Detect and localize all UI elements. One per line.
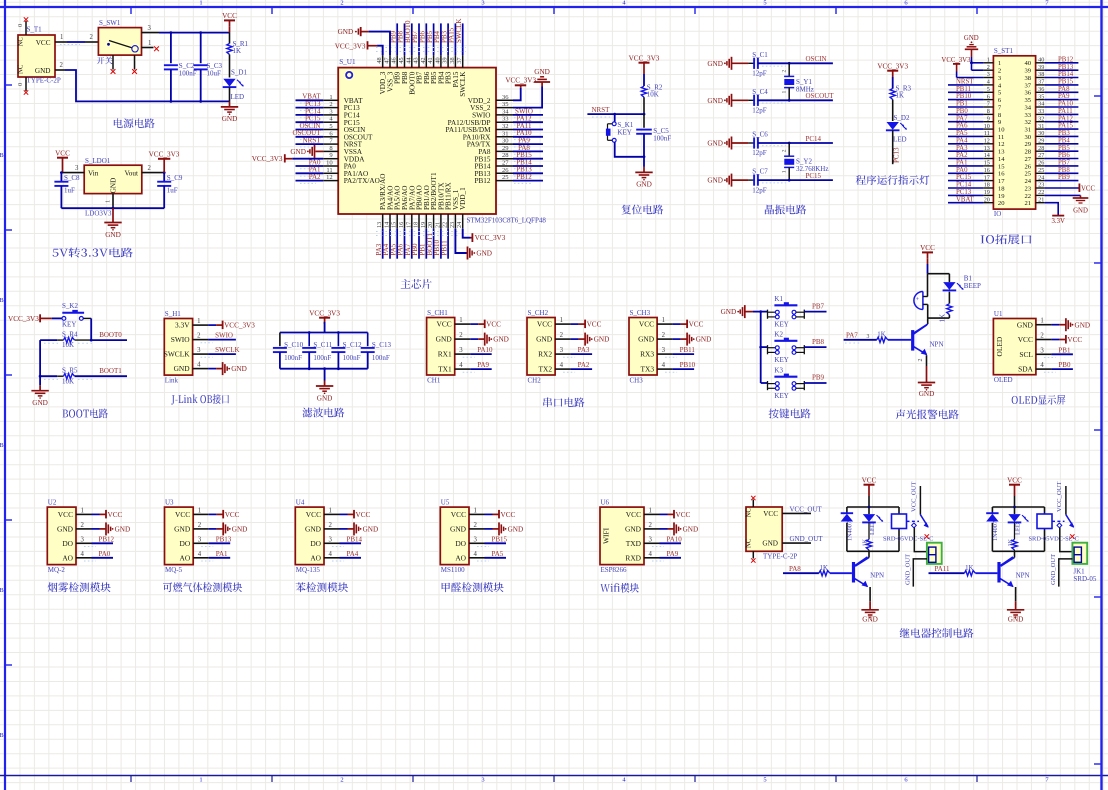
svg-text:GND: GND	[231, 365, 247, 373]
svg-text:GND: GND	[32, 399, 48, 407]
svg-text:5: 5	[987, 86, 990, 93]
svg-text:SWIO: SWIO	[171, 335, 191, 344]
svg-text:OLED: OLED	[995, 336, 1004, 356]
svg-text:PA3: PA3	[578, 346, 590, 354]
key K1 reset button	[606, 114, 644, 157]
svg-text:VCC_3V3: VCC_3V3	[149, 151, 180, 159]
svg-text:2: 2	[90, 34, 94, 41]
title main chip	[401, 279, 432, 289]
svg-text:29: 29	[502, 145, 509, 152]
power VCC_3V3 boot	[8, 314, 52, 323]
svg-text:VCC: VCC	[108, 511, 123, 519]
svg-text:31: 31	[1038, 123, 1044, 130]
svg-text:PB13: PB13	[216, 535, 232, 543]
svg-text:3: 3	[474, 536, 478, 543]
svg-text:PA4: PA4	[347, 550, 359, 558]
svg-text:14: 14	[998, 156, 1005, 163]
svg-text:15: 15	[998, 163, 1005, 170]
svg-text:22: 22	[1038, 189, 1044, 196]
svg-text:37: 37	[1038, 79, 1044, 86]
svg-text:Vout: Vout	[125, 170, 138, 178]
capacitor C3 10uF	[194, 33, 223, 102]
capacitor C6 12pF / net PC14	[707, 131, 833, 158]
svg-text:VCC: VCC	[55, 150, 70, 158]
svg-text:GND: GND	[919, 390, 935, 398]
module S_CH1 (CH1)	[427, 309, 509, 385]
svg-text:34: 34	[502, 108, 509, 115]
svg-text:21: 21	[434, 222, 441, 228]
svg-text:1: 1	[474, 507, 477, 514]
LED relay	[1008, 507, 1029, 535]
svg-text:35: 35	[1025, 97, 1032, 104]
svg-text:RX1: RX1	[438, 350, 452, 359]
svg-text:PA2: PA2	[578, 361, 590, 369]
svg-text:ESP8266: ESP8266	[601, 566, 628, 574]
svg-text:LDO3V3: LDO3V3	[85, 210, 112, 218]
svg-text:DO: DO	[310, 539, 321, 548]
svg-text:1uF: 1uF	[167, 186, 178, 194]
svg-text:4: 4	[662, 362, 666, 369]
svg-text:VCC_OUT: VCC_OUT	[790, 505, 823, 513]
svg-text:16: 16	[398, 222, 405, 228]
svg-text:22: 22	[442, 222, 449, 228]
svg-text:1: 1	[998, 60, 1001, 67]
svg-text:33: 33	[1038, 108, 1044, 115]
svg-text:PB12: PB12	[475, 177, 491, 185]
svg-text:1K: 1K	[820, 565, 828, 572]
title reset circuit	[621, 205, 663, 215]
svg-text:PA2: PA2	[309, 173, 321, 181]
ground GND at U1 pin23 VSS_1	[455, 229, 492, 260]
svg-text:MQ-135: MQ-135	[296, 566, 321, 574]
svg-text:21: 21	[1038, 196, 1044, 203]
svg-text:2: 2	[329, 522, 333, 529]
svg-text:VBAT: VBAT	[956, 196, 975, 203]
module U3 (MQ-5)	[165, 499, 248, 574]
svg-text:7: 7	[987, 101, 990, 108]
capacitor C11 100nF	[302, 333, 333, 369]
svg-text:32: 32	[1025, 119, 1032, 126]
svg-text:24: 24	[1038, 174, 1044, 181]
relay switch contact	[911, 482, 930, 539]
svg-text:GND: GND	[707, 60, 723, 68]
svg-text:4: 4	[474, 551, 478, 558]
wire key rail	[759, 310, 762, 383]
svg-text:16: 16	[998, 171, 1005, 178]
power VCC_3V3 reset	[629, 55, 660, 87]
power VCC alarm	[920, 244, 935, 274]
filter bottom rail	[280, 367, 368, 370]
wire LDO bottom rail	[61, 207, 164, 209]
svg-text:NC: NC	[746, 538, 753, 548]
crystal Y2 32.768KHz	[782, 143, 829, 180]
svg-text:GND_OUT: GND_OUT	[1050, 554, 1057, 585]
svg-text:30: 30	[502, 138, 509, 145]
svg-text:VCC: VCC	[1081, 185, 1095, 192]
svg-text:25: 25	[1025, 171, 1032, 178]
title crystal circuit	[765, 205, 806, 215]
svg-text:S_C7: S_C7	[752, 168, 768, 176]
power VCC_3V3 at U1 pin9 VDDA	[252, 154, 323, 163]
svg-text:S_U1: S_U1	[339, 58, 356, 66]
svg-text:29: 29	[1025, 141, 1032, 148]
svg-text:39: 39	[442, 57, 449, 63]
svg-text:SWCLK: SWCLK	[455, 19, 463, 44]
svg-text:35: 35	[1038, 93, 1044, 100]
svg-text:3: 3	[75, 165, 79, 172]
svg-text:SRD-05VDC-SL-C: SRD-05VDC-SL-C	[1029, 536, 1079, 543]
svg-text:19: 19	[420, 222, 427, 228]
svg-text:2: 2	[60, 62, 64, 69]
svg-text:VCC: VCC	[436, 320, 451, 329]
svg-text:GND: GND	[363, 526, 379, 534]
connector T2 TYPE-C-2P output	[746, 496, 798, 563]
svg-text:K2: K2	[774, 331, 783, 339]
svg-text:39: 39	[1025, 68, 1032, 75]
capacitor C8 1uF	[54, 173, 80, 209]
svg-text:KEY: KEY	[62, 321, 76, 329]
svg-text:GND: GND	[290, 148, 306, 156]
svg-text:S_T1: S_T1	[27, 26, 43, 34]
svg-text:1: 1	[148, 40, 151, 47]
svg-text:SCL: SCL	[1019, 350, 1033, 359]
svg-text:4: 4	[1040, 362, 1044, 369]
svg-text:1: 1	[782, 91, 788, 94]
svg-text:SWIO: SWIO	[215, 332, 233, 340]
svg-text:CH2: CH2	[528, 377, 542, 385]
svg-text:S_K2: S_K2	[62, 302, 78, 310]
svg-text:17: 17	[998, 178, 1005, 185]
svg-text:3: 3	[987, 71, 990, 78]
wire T1 VCC to SW1	[55, 34, 98, 45]
ground GND filter	[316, 369, 333, 403]
svg-text:4: 4	[560, 362, 564, 369]
net VCC_OUT from T2	[782, 505, 822, 513]
svg-text:25: 25	[502, 174, 509, 181]
power VCC_3V3 ST1 pin3	[941, 57, 983, 78]
regulator LDO1 LDO3V3	[61, 157, 164, 218]
title smoke detect module	[48, 582, 111, 592]
svg-text:27: 27	[1038, 152, 1044, 159]
module S_CH2 (CH2)	[527, 309, 609, 385]
capacitor C10 100nF	[273, 333, 304, 369]
svg-text:14: 14	[384, 222, 391, 228]
svg-text:18: 18	[984, 182, 990, 189]
power VCC ST1 pin23	[1045, 184, 1096, 193]
capacitor C1 12pF / net OSCIN	[707, 51, 833, 78]
svg-text:11: 11	[984, 130, 990, 137]
net GND_OUT from T2	[782, 535, 823, 543]
U1 top net wires and labels	[389, 19, 463, 56]
svg-text:PA3: PA3	[956, 145, 968, 152]
svg-text:NPN: NPN	[930, 340, 944, 348]
svg-text:VCC_3V3: VCC_3V3	[877, 63, 908, 71]
key K2 / net PB8	[761, 331, 827, 365]
crystal Y1 8MHz	[782, 63, 814, 100]
svg-text:VCC_3V3: VCC_3V3	[475, 234, 506, 242]
svg-text:100nF: 100nF	[284, 354, 302, 362]
wire SW1 to VCC rail	[159, 32, 230, 34]
wire T1 GND to bottom rail	[55, 62, 230, 101]
svg-text:PB1: PB1	[956, 101, 968, 108]
svg-text:13: 13	[984, 145, 990, 152]
svg-text:2: 2	[782, 70, 788, 73]
ground GND reset	[635, 157, 652, 189]
switch SW1	[97, 19, 159, 74]
title wifi module	[600, 583, 639, 593]
resistor 1K alarm	[928, 304, 952, 323]
svg-text:19: 19	[984, 189, 990, 196]
svg-text:GND: GND	[115, 526, 131, 534]
svg-text:S_H1: S_H1	[165, 310, 181, 318]
ground GND relay PA11	[1007, 601, 1024, 623]
svg-text:NC: NC	[18, 37, 25, 47]
svg-text:PA1: PA1	[216, 550, 228, 558]
svg-text:36: 36	[502, 94, 509, 101]
svg-text:U4: U4	[296, 499, 305, 507]
svg-text:GND: GND	[707, 177, 723, 185]
svg-text:1: 1	[105, 200, 112, 203]
svg-text:30: 30	[1038, 130, 1044, 137]
svg-text:GND: GND	[1008, 616, 1024, 624]
svg-text:VCC: VCC	[306, 510, 321, 519]
svg-text:Vin: Vin	[88, 170, 99, 178]
svg-text:3: 3	[198, 536, 202, 543]
capacitor C13 100nF	[361, 333, 392, 369]
resistor R4 10K / net BOOT0	[40, 331, 127, 350]
svg-text:PA15: PA15	[1058, 123, 1073, 130]
svg-text:2: 2	[81, 522, 85, 529]
svg-text:PB7: PB7	[812, 302, 825, 310]
svg-text:TX1: TX1	[438, 365, 452, 374]
svg-text:2: 2	[987, 64, 990, 71]
svg-text:9: 9	[987, 115, 990, 122]
module U2 (MQ-2)	[47, 499, 130, 574]
svg-text:VCC: VCC	[356, 511, 371, 519]
svg-text:33: 33	[502, 116, 509, 123]
svg-text:17: 17	[984, 174, 990, 181]
svg-text:12: 12	[326, 174, 333, 181]
svg-text:PA7: PA7	[846, 331, 858, 339]
terminal block JK1	[1072, 543, 1087, 564]
svg-text:TX2: TX2	[539, 365, 553, 374]
svg-text:AO: AO	[180, 553, 191, 562]
svg-text:PA11: PA11	[935, 565, 951, 573]
svg-text:1: 1	[329, 507, 332, 514]
svg-text:RXD: RXD	[625, 553, 641, 562]
svg-text:PA1: PA1	[956, 160, 967, 167]
svg-text:VCC: VCC	[222, 12, 237, 20]
svg-text:PB0: PB0	[956, 108, 968, 115]
svg-text:PB10: PB10	[680, 361, 696, 369]
svg-text:2: 2	[998, 68, 1001, 75]
svg-text:PB9: PB9	[1058, 174, 1070, 181]
svg-text:KEY: KEY	[617, 129, 631, 137]
svg-text:U3: U3	[165, 499, 174, 507]
svg-text:RX2: RX2	[538, 350, 552, 359]
svg-text:GND: GND	[493, 336, 509, 344]
svg-text:VCC_3V3: VCC_3V3	[8, 315, 39, 323]
svg-text:47: 47	[384, 57, 391, 63]
svg-text:RX3: RX3	[640, 350, 654, 359]
svg-text:BOOT0: BOOT0	[99, 331, 122, 339]
svg-text:S_SW1: S_SW1	[99, 19, 121, 27]
svg-text:GND: GND	[174, 364, 191, 373]
svg-text:PA10: PA10	[667, 535, 683, 543]
svg-text:GND: GND	[232, 526, 248, 534]
svg-text:27: 27	[502, 160, 509, 167]
svg-text:DO: DO	[62, 539, 73, 548]
svg-text:PB0: PB0	[1058, 361, 1071, 369]
svg-text:1N4007: 1N4007	[847, 521, 854, 541]
svg-text:PB11: PB11	[440, 240, 448, 256]
junction C3 top	[199, 31, 202, 34]
svg-text:3: 3	[560, 347, 564, 354]
svg-text:VCC_3V3: VCC_3V3	[224, 322, 255, 330]
svg-text:S_CH1: S_CH1	[427, 309, 448, 317]
svg-text:28: 28	[502, 152, 509, 159]
svg-text:5: 5	[763, 777, 766, 784]
svg-text:PA9: PA9	[1058, 93, 1070, 100]
svg-text:DO: DO	[180, 539, 191, 548]
svg-text:SWCLK: SWCLK	[215, 346, 240, 354]
svg-text:4: 4	[649, 551, 653, 558]
svg-text:GND: GND	[222, 115, 238, 123]
svg-text:PB11: PB11	[956, 86, 971, 93]
svg-text:38: 38	[1038, 71, 1044, 78]
svg-text:VCC_OUT: VCC_OUT	[911, 482, 918, 512]
svg-text:VCC: VCC	[36, 39, 51, 47]
svg-text:PC14: PC14	[956, 182, 972, 189]
svg-text:37: 37	[456, 57, 463, 63]
svg-text:48: 48	[376, 57, 383, 63]
svg-text:MQ-5: MQ-5	[165, 566, 183, 574]
title IO expansion port	[981, 234, 1032, 244]
svg-text:S_C11: S_C11	[313, 341, 332, 349]
svg-text:PA0: PA0	[99, 550, 111, 558]
title program run indicator	[856, 175, 930, 185]
wire GND_OUT to connector	[905, 554, 928, 587]
svg-text:OSCIN: OSCIN	[806, 55, 827, 63]
svg-text:4: 4	[329, 551, 333, 558]
svg-text:12: 12	[998, 141, 1005, 148]
svg-text:40: 40	[1038, 57, 1044, 64]
svg-text:PB14: PB14	[1058, 71, 1074, 78]
svg-text:26: 26	[1025, 163, 1032, 170]
svg-text:2: 2	[340, 0, 343, 7]
svg-text:PB5: PB5	[1058, 145, 1070, 152]
svg-text:GND: GND	[1017, 320, 1034, 329]
LED D2	[886, 114, 910, 164]
svg-text:S_ST1: S_ST1	[994, 47, 1014, 55]
svg-text:12pF: 12pF	[752, 149, 767, 157]
svg-text:20: 20	[998, 200, 1005, 207]
svg-text:40: 40	[434, 57, 441, 63]
power 3.3V ST1 pin21	[1045, 203, 1065, 225]
svg-text:11: 11	[326, 167, 332, 174]
svg-text:18: 18	[413, 222, 420, 228]
svg-text:4: 4	[197, 362, 201, 369]
svg-text:K3: K3	[774, 366, 783, 374]
svg-text:2: 2	[649, 522, 653, 529]
svg-text:10uF: 10uF	[207, 70, 222, 78]
svg-text:GND: GND	[450, 525, 467, 534]
svg-text:PB6: PB6	[1058, 152, 1070, 159]
svg-text:S_D2: S_D2	[894, 114, 910, 122]
svg-text:3: 3	[649, 536, 653, 543]
svg-text:VCC: VCC	[626, 510, 641, 519]
svg-text:BOOT1: BOOT1	[99, 367, 122, 375]
svg-text:PA7: PA7	[956, 115, 968, 122]
title formaldehyde detect module	[442, 582, 504, 592]
svg-text:6: 6	[987, 93, 990, 100]
svg-text:VCC: VCC	[639, 320, 654, 329]
svg-text:GND: GND	[594, 336, 610, 344]
svg-text:U2: U2	[48, 499, 57, 507]
key K2 boot button	[52, 302, 91, 340]
svg-text:20: 20	[984, 196, 990, 203]
svg-text:GND: GND	[707, 97, 723, 105]
svg-text:GND: GND	[174, 525, 191, 534]
svg-text:SWCLK: SWCLK	[459, 71, 467, 97]
relay switch contact	[1056, 482, 1075, 539]
svg-text:1K: 1K	[862, 538, 869, 546]
ST1 left net labels	[948, 79, 983, 204]
power VCC_3V3 at U1 pin24 VDD_1	[463, 229, 506, 243]
svg-text:PA10: PA10	[477, 346, 493, 354]
key K3 / net PB9	[761, 366, 827, 400]
title serial circuit	[543, 397, 584, 407]
U1 right pin stubs and numbers	[496, 94, 513, 181]
svg-text:TYPE-C-2P: TYPE-C-2P	[27, 76, 61, 84]
svg-text:VCC_3V3: VCC_3V3	[941, 57, 971, 64]
svg-text:VCC: VCC	[1067, 336, 1082, 344]
svg-text:PB15: PB15	[1058, 79, 1074, 86]
svg-text:46: 46	[391, 57, 398, 63]
svg-text:VCC_3V3: VCC_3V3	[505, 76, 536, 84]
svg-text:12pF: 12pF	[752, 107, 767, 115]
svg-text:30: 30	[1025, 134, 1032, 141]
svg-text:15: 15	[391, 222, 398, 228]
svg-text:PB4: PB4	[1058, 137, 1070, 144]
svg-text:K1: K1	[774, 295, 783, 303]
svg-text:1: 1	[199, 0, 202, 7]
power VCC_3V3 indicator	[877, 63, 908, 89]
svg-text:NC: NC	[746, 508, 753, 518]
svg-text:MS1100: MS1100	[441, 566, 465, 574]
svg-text:3: 3	[481, 0, 484, 7]
wire alarm top split	[928, 274, 950, 297]
net NRST wire	[587, 106, 645, 117]
svg-text:NC: NC	[18, 64, 25, 74]
svg-text:2: 2	[148, 165, 152, 172]
relay coil CN1	[883, 514, 933, 543]
svg-text:CH3: CH3	[630, 377, 644, 385]
resistor 1K base / net PA7	[844, 331, 912, 343]
title benzene detect module	[296, 582, 348, 592]
svg-text:PA9: PA9	[667, 550, 679, 558]
svg-text:2: 2	[340, 777, 343, 784]
svg-text:U5: U5	[441, 499, 450, 507]
svg-text:DO: DO	[455, 539, 466, 548]
svg-text:GND: GND	[721, 308, 737, 316]
power VCC_3V3 at U1 pin48 VDD_3	[335, 41, 383, 55]
svg-text:PA4: PA4	[956, 137, 968, 144]
svg-text:S_CH2: S_CH2	[528, 309, 549, 317]
svg-text:10K: 10K	[62, 341, 74, 349]
svg-text:PA0: PA0	[956, 167, 968, 174]
svg-text:SWCLK: SWCLK	[164, 350, 191, 359]
